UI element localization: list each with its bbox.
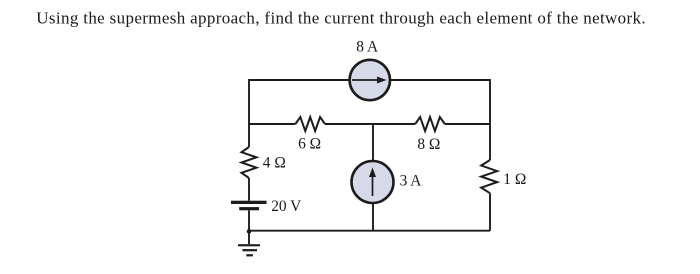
arrow of 3 A source (pointing up) <box>369 167 376 196</box>
current source 8 A (circle) <box>350 60 390 100</box>
label 8 ohm <box>417 136 440 153</box>
label 1 ohm <box>503 171 526 188</box>
wire left rail below battery to bottom junction <box>248 210 250 231</box>
label 3 A <box>400 172 422 189</box>
wire middle vertical lower (3A source to bottom wire) <box>372 203 374 231</box>
label 6 ohm <box>298 136 321 153</box>
resistor 6 ohm (horizontal zigzag) <box>295 117 325 131</box>
resistor 8 ohm (horizontal zigzag) <box>415 117 445 131</box>
ground symbol <box>238 244 260 256</box>
label 4 ohm <box>263 155 286 172</box>
svg-text:6 Ω: 6 Ω <box>298 136 321 153</box>
svg-text:20 V: 20 V <box>271 198 301 215</box>
svg-text:8 Ω: 8 Ω <box>417 136 440 153</box>
resistor 1 ohm (vertical zigzag on right rail) <box>481 160 497 193</box>
svg-text:1 Ω: 1 Ω <box>503 171 526 188</box>
wire from junction down to ground <box>248 231 250 244</box>
wire bottom from left junction to right rail <box>249 230 490 232</box>
svg-text:Using the supermesh approach,: Using the supermesh approach, find the c… <box>36 8 646 27</box>
wire left rail upper (top corner down to middle wire and resistor) <box>248 79 250 147</box>
wire right rail lower <box>489 193 491 231</box>
svg-text:3 A: 3 A <box>400 172 422 189</box>
battery V1 20 V (two plates) <box>231 201 267 211</box>
wire top from left rail to right rail <box>249 79 490 81</box>
label 8 A <box>356 39 378 56</box>
svg-text:4 Ω: 4 Ω <box>263 155 286 172</box>
wire left rail between 4 ohm and battery <box>248 178 250 201</box>
resistor 4 ohm (vertical zigzag on left rail) <box>242 147 257 178</box>
svg-text:8 A: 8 A <box>356 39 378 56</box>
node junction dot at battery/bottom wire <box>247 229 252 234</box>
wire middle horizontal left segment <box>249 123 295 125</box>
wire middle horizontal center segment <box>325 123 415 125</box>
current source 3 A (circle) <box>352 161 394 203</box>
wire middle vertical upper (middle wire to 3A source) <box>372 124 374 161</box>
arrow of 8 A source (pointing right) <box>352 77 387 84</box>
wire middle horizontal right segment <box>445 123 490 125</box>
wire right rail upper <box>489 79 491 160</box>
title text <box>36 8 646 27</box>
label 20 V <box>271 198 301 215</box>
